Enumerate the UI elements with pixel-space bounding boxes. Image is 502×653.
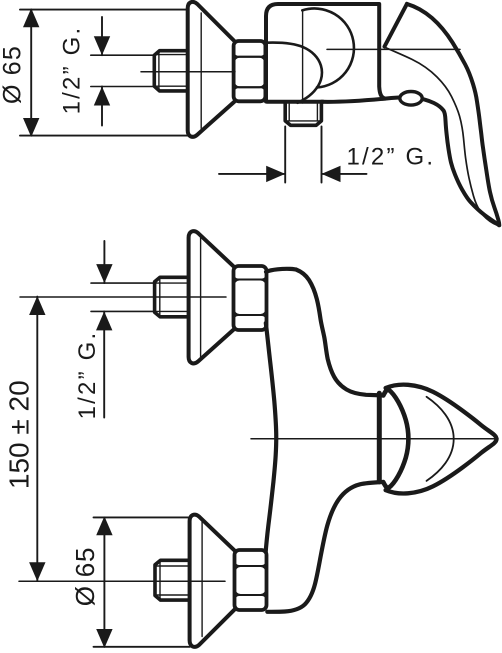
dimension Ø65 (bottom) arrowhead up (96, 516, 112, 535)
dimension Ø65 (bottom) arrowhead down (96, 629, 112, 648)
mixer body left edge (front) (266, 323, 277, 552)
dimension Ø65 (top view) arrowhead down (23, 118, 39, 137)
outlet dimension left arrow (219, 173, 285, 175)
pipe centerline (top view) (141, 71, 235, 73)
threaded nipple (top view) (154, 51, 187, 91)
outlet dimension right arrow (322, 173, 367, 175)
nipple chamfer line (top view) (158, 52, 160, 91)
top connection centerline (front) (20, 296, 226, 298)
svg-text:1/2” G.: 1/2” G. (74, 331, 101, 420)
dimension 1/2"G (front) upper arrow (103, 241, 105, 283)
body bottom edge left segment (top view) (267, 100, 323, 104)
svg-text:150 ± 20: 150 ± 20 (4, 380, 35, 489)
dimension Ø65 (bottom) dimension line (103, 517, 105, 646)
svg-text:Ø 65: Ø 65 (0, 45, 26, 104)
body centerline (top view) (327, 48, 460, 50)
body bottom edge / handle underside (top view) (322, 97, 499, 225)
nipple thread root lines (top view) (155, 55, 188, 87)
outlet chamfer lines (top view) (289, 104, 317, 121)
mixer body bottom S-curve (front) (267, 482, 382, 612)
handle oval cap (top view) (400, 92, 422, 106)
nipple bottom chamfer line (front) (159, 561, 161, 600)
hex nut top (front) (234, 266, 267, 330)
wall flange top (front) (189, 231, 234, 363)
handle outer curve (top view) (407, 4, 499, 225)
dimension Ø65 (top view) extension line top (20, 9, 187, 11)
dimension Ø65 (top view) extension line bottom (20, 135, 192, 137)
nipple top thread root lines (front) (155, 283, 189, 311)
dimension Ø65 (top view) arrowhead up (23, 8, 39, 27)
outlet chamfer horizontal line (top view) (286, 120, 322, 122)
cartridge dome (top view) (267, 43, 322, 103)
dimension Ø65 (top view) dimension line (30, 10, 32, 136)
wall flange / escutcheon (top view) (188, 2, 235, 137)
flange bottom silhouette line (front) (201, 521, 203, 637)
cartridge big arc (top view) (302, 8, 354, 87)
dimension 150±20 dimension line (36, 297, 38, 581)
threaded nipple bottom (front) (155, 560, 189, 600)
handle cone (front) (386, 385, 497, 494)
flange top silhouette line (front) (200, 238, 202, 358)
dimension 150±20 arrowhead up (29, 296, 45, 315)
nipple top chamfer line (front) (159, 278, 161, 316)
handle cone inner arc (front) (427, 397, 454, 481)
middle centerline (front) (251, 438, 498, 440)
cartridge crescent (front) (383, 390, 408, 489)
dimension Ø65 (bottom) extension lines (94, 517, 191, 646)
hex nut bottom (front) (235, 550, 267, 610)
mixer body top edge + right S-curve (front) (266, 269, 383, 396)
dimension 1/2"G (front) lower arrow (103, 311, 105, 417)
dimension 1/2"G (top view) lower arrow (101, 87, 103, 126)
handle joint slant (top view) (385, 4, 407, 47)
threaded nipple top (front) (155, 277, 189, 317)
dimension 1/2"G (top view) witness line lower (91, 86, 154, 88)
outlet dimension extension lines (285, 127, 321, 183)
dimension 1/2"G (top view) upper arrow (101, 17, 103, 55)
bottom connection centerline (front) (19, 580, 225, 582)
outlet centerline vertical (top view) (302, 10, 304, 103)
wall flange bottom (front) (190, 515, 236, 647)
outlet (top view) (285, 104, 321, 126)
cartridge ring line (front) (377, 393, 382, 482)
dimension 150±20 arrowhead down (29, 562, 45, 581)
escutcheon cone silhouette line (top view) (200, 13, 202, 129)
svg-text:1/2” G.: 1/2” G. (347, 144, 436, 171)
dimension 1/2"G (top view) witness line upper (91, 54, 154, 56)
dimension 1/2"G (front) witness lines (91, 283, 154, 311)
svg-text:1/2” G.: 1/2” G. (59, 26, 86, 115)
nipple bottom thread root lines (front) (155, 566, 188, 595)
svg-text:Ø 65: Ø 65 (70, 547, 100, 607)
handle inner thin curve (top view) (386, 48, 499, 226)
hex nut (top view) (234, 41, 266, 101)
mixer body outline (top view) (266, 4, 385, 102)
